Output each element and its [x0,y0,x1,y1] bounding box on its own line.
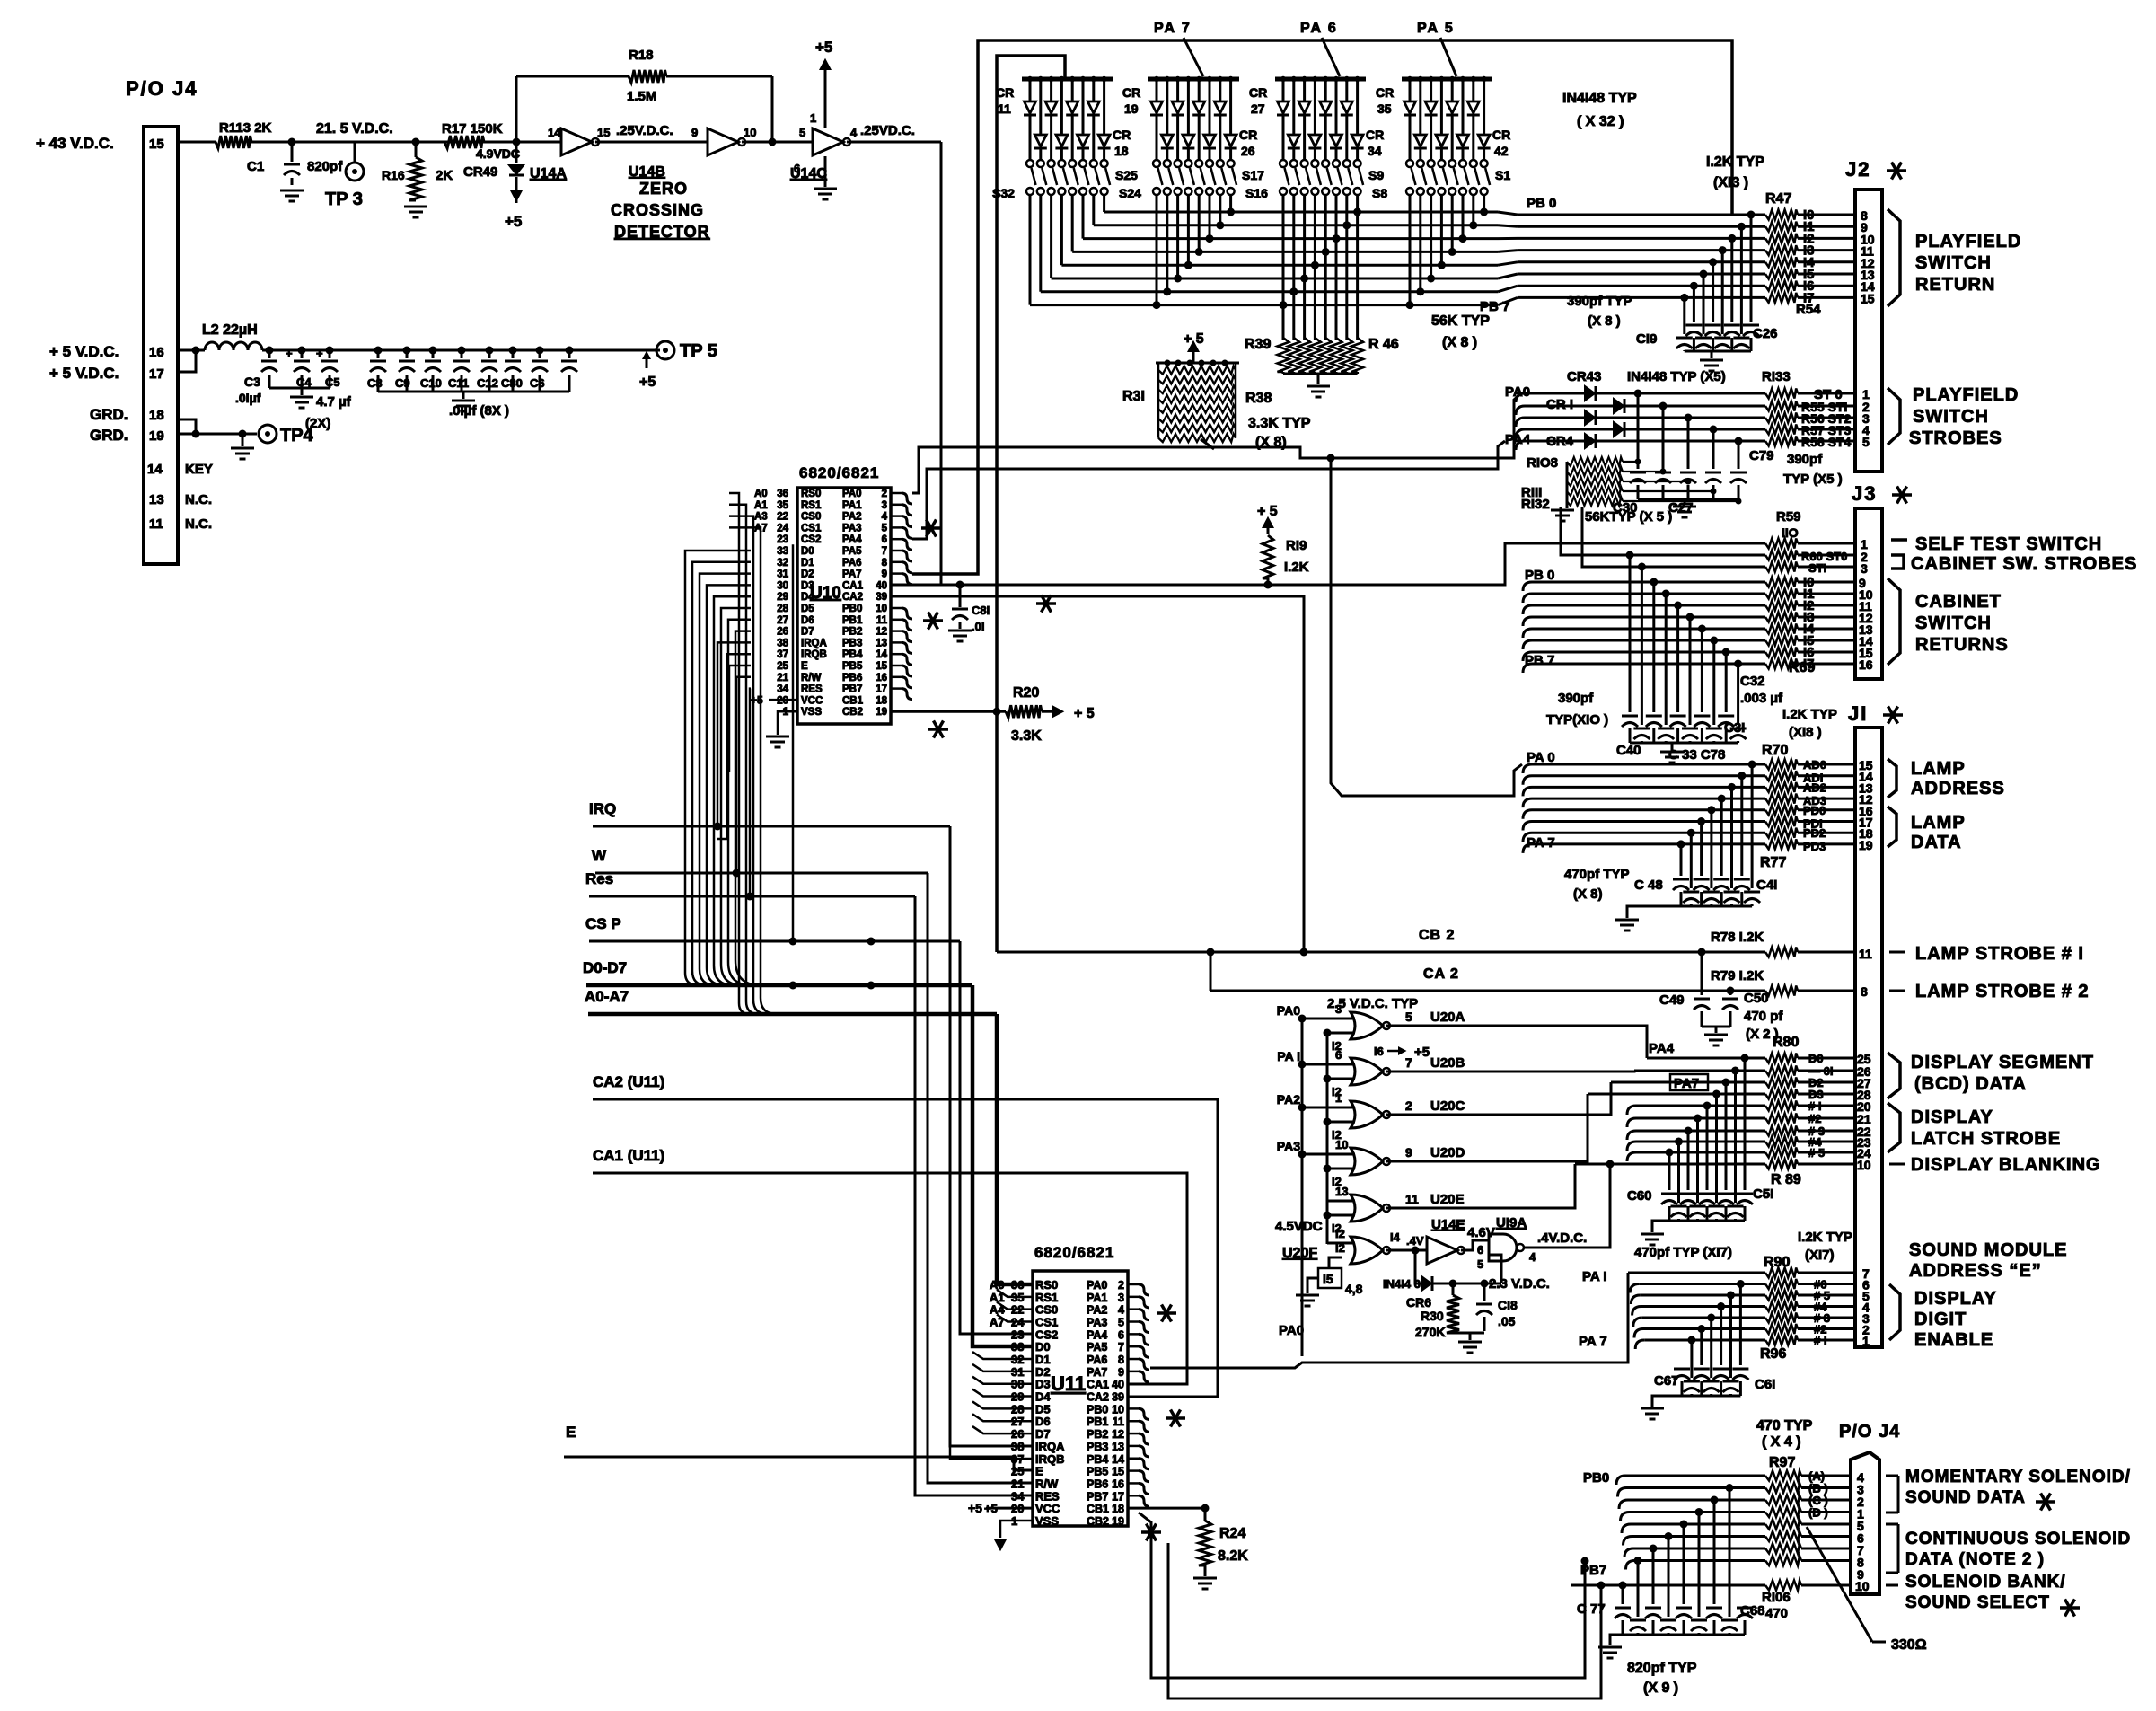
diode CR (row1) col5 grp4 [1447,101,1458,113]
svg-text:R38: R38 [1245,391,1272,406]
svg-text:18: 18 [1112,1503,1124,1515]
wire IRQ [593,825,950,828]
svg-text:390pf: 390pf [1787,452,1823,467]
wire cabinet return I7 [1523,664,1532,673]
capacitor display C56 470pf [1699,1193,1715,1195]
switch contact row1 col6 grp1 [1079,160,1087,167]
diode-column line 8 grp1 [1101,76,1106,82]
svg-text:11: 11 [998,101,1011,116]
switch contact row1 col8 grp4 [1481,160,1488,167]
wire +5 from J4-16 [178,349,205,352]
svg-text:PA3: PA3 [1087,1317,1107,1329]
wire return bus row 7 [1041,290,1498,293]
svg-text:CA2: CA2 [842,592,863,603]
svg-text:19: 19 [149,428,164,444]
svg-text:RIO8: RIO8 [1527,455,1558,471]
svg-text:14: 14 [1112,1453,1124,1466]
capacitor digit C65 470pf [1694,1368,1710,1371]
wire CB2 loop from U10 [891,596,1304,952]
wire CS P [589,940,960,943]
diode-column line 1 grp1 [1027,76,1033,82]
wire switch drop col8 grp1 [1103,195,1105,212]
diode CR (row1) col5 grp1 [1067,101,1078,113]
asterisk near U10 PB hooks [923,619,943,622]
wire IRQ to U11 IRQB [950,1446,1033,1459]
wire zero-cross to U10 CA1 (vertical) [940,142,943,585]
svg-text:A4: A4 [990,1303,1005,1317]
svg-text:D6: D6 [1035,1415,1051,1428]
svg-text:RI33: RI33 [1762,369,1791,384]
svg-text:17: 17 [1112,1490,1124,1503]
svg-text:C60: C60 [1627,1188,1652,1204]
svg-text:33: 33 [777,546,788,557]
wire strobe tap 2 [1687,418,1690,469]
capacitor C24 390pf [1695,337,1712,340]
wire cab cap tap 2 [1650,578,1658,587]
resistor R53 1.2K [1765,281,1798,291]
svg-text:S9: S9 [1368,168,1384,182]
resistor R37 3.3K [1158,424,1236,432]
svg-text:D2: D2 [1035,1365,1051,1379]
U11 pin 4 hook [1128,1308,1139,1310]
svg-text:ZERO: ZERO [639,180,688,198]
diode CR (row2) col2 grp1 [1034,135,1046,146]
U10 pin 12 hook [891,630,902,632]
svg-text:RS1: RS1 [1035,1291,1058,1304]
resistor R43 (56K bank) [1320,338,1332,372]
svg-text:PB4: PB4 [842,649,863,660]
wire cap tap 5 [1700,270,1708,278]
wire +43V from J4-15 [178,141,216,144]
svg-text:TP4: TP4 [280,426,314,445]
switch contact row1 col4 grp3 [1311,160,1318,167]
wire U10 IRQA/IRQB to IRQ [717,642,751,826]
svg-text:PA0: PA0 [1277,1003,1300,1018]
wire W [595,872,928,875]
svg-text:R79 I.2K: R79 I.2K [1711,968,1764,983]
switch contact row2 col1 grp1 [1026,188,1034,195]
switch contact row2 col3 grp3 [1301,188,1308,195]
svg-text:CR6: CR6 [1406,1295,1431,1310]
brace playfield switch strobes [1888,388,1900,445]
wire pin15 to ground [1307,1278,1318,1293]
svg-text:S16: S16 [1245,186,1268,200]
svg-text:PB0: PB0 [842,604,862,614]
text LAMP STROBE #2 [1889,990,1905,992]
svg-text:470pf TYP (XI7): 470pf TYP (XI7) [1634,1245,1732,1260]
svg-text:470 pf: 470 pf [1744,1009,1783,1024]
svg-text:PA5: PA5 [842,546,862,557]
svg-text:RS1: RS1 [801,500,822,511]
U10 pin 15 hook [891,665,902,667]
svg-text:# I: # I [1808,1099,1821,1113]
wire cabinet return I1 [1523,594,1532,603]
svg-text:IN4I48 TYP: IN4I48 TYP [1562,91,1637,106]
svg-text:D2: D2 [801,569,814,580]
svg-text:5: 5 [1477,1257,1483,1271]
svg-text:.25VD.C.: .25VD.C. [860,123,915,138]
diode CR6 [1421,1276,1431,1291]
svg-text:CS0: CS0 [801,512,821,523]
wire lamp cap tap 6 [1687,829,1695,837]
svg-text:22: 22 [777,512,788,523]
svg-text:PA4: PA4 [1649,1041,1675,1056]
capacitor C19 390pf [1743,324,1759,327]
resistor R61 (ST1 cab) [1765,562,1798,572]
svg-text:4.7 µf: 4.7 µf [316,394,352,410]
wire cabinet return I4 [1523,629,1532,638]
svg-text:C1: C1 [247,159,264,174]
resistor R103 solenoid 470 [1765,1544,1801,1554]
svg-text:CI8: CI8 [1498,1298,1518,1312]
test point TP4 [242,433,257,436]
wire lamp cap tap 0 [1748,761,1756,769]
svg-text:PA3: PA3 [1277,1139,1300,1153]
wire U20C output to segment D2 [1459,1082,1611,1115]
svg-text:SWITCH: SWITCH [1915,253,1992,273]
svg-text:16: 16 [1112,1477,1124,1490]
svg-text:6820/6821: 6820/6821 [799,464,879,481]
svg-text:C8I: C8I [972,604,990,617]
diode CR49 [515,142,518,163]
wire return line I6 [1518,285,1765,287]
diode CR (row1) col1 grp3 [1278,101,1289,113]
svg-text:39: 39 [1112,1391,1124,1404]
capacitor cab 6 390pf [1694,715,1710,718]
diode CR (row2) col6 grp1 [1078,135,1089,146]
svg-text:.25V.D.C.: .25V.D.C. [616,123,673,138]
svg-text:35: 35 [777,500,788,511]
brace display digit enable [1889,1284,1900,1340]
svg-text:40: 40 [876,580,887,591]
resistor R41 (56K bank) [1298,338,1310,372]
wire switch drop col1 grp4 [1409,195,1412,305]
svg-text:(X 8 ): (X 8 ) [1588,313,1621,329]
diode-column line 3 grp1 [1048,76,1053,82]
cap C4 4.7uf [298,347,306,355]
wire cap tap 4 [1709,258,1717,266]
U10 pin 5 hook [891,526,902,529]
svg-text:13: 13 [876,638,887,648]
svg-text:GRD.: GRD. [90,427,128,444]
wire strobe line ST0 [1516,393,1525,402]
wire D0-D7 bus to U11 data pins [972,985,1033,1346]
svg-text:VCC: VCC [801,695,823,706]
asterisk near U10 PA hooks [921,526,941,530]
svg-text:+5: +5 [815,39,832,56]
wire solenoid cap tap 1 [1726,1484,1734,1492]
resistor R18 1.5M [516,75,629,78]
wire switch drop col2 grp3 [1292,195,1295,292]
svg-text:PB1: PB1 [1087,1416,1108,1428]
wire return bus row 3 [1083,237,1498,240]
svg-text:PA6: PA6 [842,558,862,569]
capacitor lamp C47 470pf [1683,891,1699,894]
wire lamp cap tap 4 [1707,806,1715,814]
svg-text:7: 7 [1118,1341,1124,1354]
switch contact row1 col2 grp1 [1037,160,1044,167]
svg-text:CA1: CA1 [842,580,864,591]
svg-text:11: 11 [876,615,888,626]
wire U20E output to blanking line [1401,1164,1575,1208]
svg-text:LATCH STROBE: LATCH STROBE [1911,1129,2061,1149]
U20F inputs [1327,1242,1355,1245]
U20C input wires [1302,1107,1355,1109]
svg-text:R113 2K: R113 2K [219,120,272,136]
svg-text:24: 24 [1011,1316,1025,1329]
svg-text:PB4: PB4 [1087,1453,1108,1466]
wire switch drop col6 grp4 [1462,195,1465,239]
switch contact row1 col7 grp3 [1343,160,1351,167]
svg-text:26: 26 [1241,144,1255,158]
svg-text:PD2: PD2 [1803,826,1826,840]
svg-text:36: 36 [777,489,788,499]
diode-column line 28 grp4 [1439,76,1444,82]
diode CR (row2) col2 grp4 [1414,135,1426,146]
resistor R58 strobe [1765,437,1798,446]
svg-text:STI: STI [1808,561,1826,575]
U20A output [1386,1025,1401,1027]
svg-text:56K TYP: 56K TYP [1431,313,1490,329]
svg-text:5: 5 [1118,1317,1124,1329]
svg-text:25: 25 [1011,1465,1024,1478]
switch contact row2 col6 grp1 [1079,188,1087,195]
wire strobe line ST3 [1516,429,1525,438]
wire solenoid line 4 [1622,1524,1631,1533]
wire switch drop col5 grp1 [1071,195,1074,251]
wire cab cap tap 4 [1674,602,1682,610]
test point TP5 [656,341,674,359]
wire lamp line PD2 [1523,833,1532,842]
svg-text:A1: A1 [990,1291,1005,1304]
resistor R35 3.3K [1158,405,1236,413]
U10 pin 3 hook [891,504,902,507]
svg-text:38: 38 [1011,1440,1024,1453]
resistor R20 3.3K to +5 [891,710,997,713]
capacitor cab 1 390pf [1633,728,1650,730]
diode-column line 19 grp3 [1301,76,1307,82]
label 330ohm with callout [1807,1527,1872,1642]
capacitor solenoid C73 820pf [1676,1607,1692,1610]
svg-text:15: 15 [597,126,610,139]
resistor R47 1.2K [1765,210,1798,220]
resistor R63 cab 1.2K [1765,601,1798,611]
wire U10 E stub [729,666,751,772]
svg-text:PA 0: PA 0 [1527,750,1555,765]
svg-text:470: 470 [1765,1606,1788,1621]
wire solenoid cap tap 3 [1695,1508,1703,1516]
diode CR (row1) col3 grp1 [1045,101,1057,113]
svg-text:9: 9 [1405,1145,1412,1160]
svg-text:12: 12 [876,627,887,638]
svg-text:D4: D4 [801,592,814,603]
svg-text:C3I: C3I [1724,720,1745,736]
svg-text:D5: D5 [801,604,814,614]
svg-text:C40: C40 [1616,743,1641,758]
svg-text:J3: J3 [1852,482,1877,505]
resistor R66 cab 1.2K [1765,636,1798,646]
svg-text:R69: R69 [1789,660,1815,675]
svg-text:14: 14 [876,649,887,660]
capacitor C49 [1698,948,1706,957]
wire U20B output to segment D1 [1459,1071,1634,1072]
wire switch drop col4 grp4 [1440,195,1443,265]
wire display cap tap 0 [1741,1054,1749,1063]
svg-text:RETURNS: RETURNS [1915,635,2009,655]
switch contact row1 col6 grp4 [1459,160,1466,167]
wire solenoid line 0 [1616,1476,1625,1485]
switch group 1 top bar [1022,77,1113,82]
svg-text:TP 5: TP 5 [680,341,717,361]
text LAMP STROBE #1 [1889,951,1905,954]
resistor R64 cab 1.2K [1765,613,1798,622]
svg-text:C 33 C78: C 33 C78 [1668,747,1725,763]
diode-column line 2 grp1 [1038,76,1043,82]
wire digit line 6 [1635,1340,1644,1349]
capacitor lamp C42 470pf [1734,878,1750,881]
wire solenoid cap tap 2 [1711,1496,1719,1504]
switch contact row1 col5 grp3 [1322,160,1329,167]
callout PA7 to group2 [1184,38,1203,76]
svg-text:S8: S8 [1372,186,1387,200]
diode-column line 16 grp2 [1228,76,1233,82]
wire display line 8 [1627,1152,1636,1161]
svg-text:390pf: 390pf [1558,691,1594,706]
svg-text:DIGIT: DIGIT [1914,1310,1967,1329]
capacitor lamp C45 470pf [1703,891,1720,894]
switch contact row2 col5 grp4 [1448,188,1456,195]
svg-text:R78 I.2K: R78 I.2K [1711,930,1764,945]
capacitor solenoid C72 820pf [1691,1619,1707,1622]
diode CR on strobe ST4 [1585,434,1595,448]
svg-text:DISPLAY SEGMENT: DISPLAY SEGMENT [1911,1053,2094,1072]
resistor R81 display 1.2K [1765,1066,1798,1076]
bracket self test switch [1891,538,1907,542]
U10 pin 11 hook [891,619,902,622]
svg-text:PA0: PA0 [1279,1323,1304,1338]
wire cab cap tap 7 [1710,637,1718,645]
bus bar C3-C5 [269,387,330,390]
wire digit cap tap 1 [1737,1280,1745,1288]
wire funnel jog row 7 [1498,286,1518,292]
diode-column line 29 grp4 [1449,76,1455,82]
svg-text:D3: D3 [1035,1378,1051,1391]
svg-text:RI9: RI9 [1286,538,1307,553]
svg-text:4: 4 [1529,1250,1536,1264]
wire lamp line AD2 [1523,787,1532,796]
wire cab cap tap 0 [1626,551,1634,560]
U20E input wires [1327,1200,1355,1203]
wire lamp line AD0 [1523,764,1532,773]
wire return bus row 4 [1072,251,1498,253]
wire U10 R/W to W [736,677,751,873]
diode-column line 17 grp3 [1280,76,1286,82]
svg-text:R17 150K: R17 150K [442,121,503,137]
svg-text:(D ): (D ) [1808,1506,1828,1520]
svg-text:CR43: CR43 [1567,369,1601,384]
svg-text:PB0: PB0 [1087,1403,1108,1416]
svg-text:S32: S32 [992,186,1015,200]
bar under display caps [1669,1220,1745,1222]
svg-text:6: 6 [1335,1048,1342,1062]
U11 pin 2 hook [1128,1283,1139,1286]
wire drop to 56K resistor col5 [1324,251,1327,340]
svg-text:470pf TYP: 470pf TYP [1564,867,1630,882]
wire funnel jog row 5 [1498,262,1518,265]
brace playfield switch return [1888,209,1900,306]
svg-text:R16: R16 [382,168,405,182]
svg-text:CB2: CB2 [842,707,863,718]
svg-text:39: 39 [876,592,887,603]
svg-text:C8: C8 [367,376,383,390]
svg-text:36: 36 [1011,1278,1024,1292]
U20C output [1386,1114,1401,1116]
svg-text:STROBES: STROBES [1909,428,2002,448]
ground C1 [280,190,304,192]
svg-text:10: 10 [744,126,756,139]
diode-column line 13 grp2 [1196,76,1201,82]
ground strobe caps [1673,506,1696,508]
svg-text:# I: # I [1814,1334,1826,1347]
U11 pin 10 hook [1128,1407,1139,1410]
ground +5 cap bank [452,400,475,402]
svg-text:( X 4 ): ( X 4 ) [1762,1434,1801,1450]
wire cabinet return I3 [1523,617,1532,626]
svg-text:.05: .05 [1498,1314,1516,1328]
switch group 4 top bar [1402,77,1492,82]
svg-text:5: 5 [882,523,888,534]
svg-text:2: 2 [1118,1279,1124,1292]
svg-text:R97: R97 [1769,1455,1795,1470]
svg-text:16: 16 [876,673,887,684]
wire cab cap tap 9 [1734,660,1742,668]
svg-text:TP 3: TP 3 [325,190,363,209]
svg-text:CB1: CB1 [1087,1503,1109,1515]
wire lamp line ADI [1523,776,1532,785]
wire U10 D1 to bus [692,562,751,985]
capacitor solenoid C70 820pf [1721,1619,1738,1622]
svg-text:8: 8 [882,558,888,569]
svg-text:PD3: PD3 [1803,840,1826,853]
svg-text:4: 4 [850,126,858,139]
resistor R50 1.2K [1765,245,1798,255]
resistor R42 (56K bank) [1309,338,1321,372]
svg-text:I.2K TYP: I.2K TYP [1706,154,1764,170]
resistor R89 display 1.2K [1765,1160,1798,1169]
wire return line I2 [1518,237,1765,240]
svg-text:R39: R39 [1245,337,1271,352]
switch contact row1 col8 grp2 [1228,160,1235,167]
svg-text:6: 6 [882,534,887,545]
wire digit line 0 [1628,1272,1765,1274]
svg-text:C 77: C 77 [1577,1601,1606,1617]
wire switch drop col6 grp3 [1335,195,1338,239]
svg-text:6: 6 [1477,1243,1483,1257]
diode-column line 14 grp2 [1207,76,1212,82]
svg-text:18: 18 [1114,144,1129,158]
svg-text:11: 11 [149,516,163,532]
svg-text:D0: D0 [1808,1052,1824,1065]
wire strobe line ST2 [1516,418,1525,427]
wire switch drop col2 grp2 [1166,195,1168,292]
wire strobe line ST1 [1516,406,1525,415]
svg-text:R47: R47 [1765,191,1791,207]
svg-text:PB0: PB0 [1583,1470,1609,1486]
switch contact row2 col2 grp3 [1290,188,1298,195]
diode-column line 7 grp1 [1091,76,1096,82]
svg-text:I4: I4 [1390,1230,1401,1244]
NOR gate U20C [1351,1101,1383,1128]
